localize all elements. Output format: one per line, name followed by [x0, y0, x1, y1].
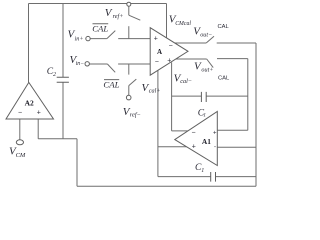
- capacitor C1 bottom plates: [211, 172, 216, 182]
- wire V_ref+ stub: [128, 6, 130, 15]
- terminal V_in+: [86, 36, 90, 40]
- switch blade CAL row2: [107, 64, 115, 72]
- wire row1 to A + input: [118, 38, 150, 40]
- terminal V_in-: [85, 62, 89, 66]
- wire right inner vertical: [247, 59, 249, 131]
- svg-text:−: −: [155, 59, 159, 66]
- op-amp A2: [6, 82, 54, 119]
- svg-text:CAL: CAL: [92, 23, 108, 33]
- label CAL-bar row1: [92, 23, 108, 33]
- svg-text:2: 2: [53, 72, 56, 78]
- terminal V_CM: [16, 140, 23, 145]
- wire A2 inverting input stub: [19, 119, 21, 140]
- switch blade CAL V_out-: [206, 36, 214, 43]
- svg-text:ref−: ref−: [130, 112, 141, 119]
- svg-text:+: +: [154, 36, 158, 43]
- svg-text:in+: in+: [75, 35, 84, 42]
- capacitor C2 plates: [57, 77, 69, 82]
- wire row2 Vin- to switch: [90, 63, 108, 65]
- svg-text:CM: CM: [16, 152, 26, 159]
- wire C1 bottom right lead: [216, 176, 257, 178]
- wire V_ref- lower stub: [128, 86, 130, 96]
- svg-text:-: -: [214, 144, 216, 150]
- wire A2 noninverting input stub: [37, 119, 39, 139]
- wire C1 top right lead: [206, 95, 248, 97]
- wire top rail: [29, 3, 167, 5]
- svg-text:1: 1: [203, 112, 206, 118]
- wire bottom rail: [77, 185, 256, 187]
- switch blade CAL row1: [107, 31, 115, 39]
- switch blade CAL V_out+: [207, 59, 214, 68]
- terminal V_ref-: [126, 95, 131, 100]
- svg-text:ref+: ref+: [113, 13, 124, 20]
- wire V_cal+ drop: [157, 70, 159, 176]
- label V_out-: [193, 25, 212, 38]
- svg-text:A: A: [157, 48, 162, 56]
- svg-text:1: 1: [201, 168, 204, 174]
- wire C2 bottom lead: [62, 82, 64, 139]
- label V_in+: [68, 29, 84, 43]
- svg-text:cal+: cal+: [149, 88, 161, 95]
- wire A1 noninverting input: [158, 146, 187, 148]
- svg-text:CAL: CAL: [103, 80, 119, 90]
- label V_CMcal: [169, 13, 192, 27]
- wire V_CMcal drop: [166, 4, 168, 38]
- wire A2 output up: [28, 4, 30, 83]
- wire row1 Vin+ to switch: [90, 38, 107, 40]
- terminal V_ref+: [127, 2, 131, 6]
- label V_cal+: [142, 82, 161, 95]
- label V_cal-: [174, 72, 192, 85]
- wire A1 inverting input: [172, 130, 188, 132]
- svg-text:cal−: cal−: [180, 78, 192, 85]
- wire row2 to A - input: [118, 63, 150, 65]
- wire A2 + to corner: [38, 138, 77, 140]
- wire C2 top lead: [62, 4, 64, 78]
- wire V_ref- upper stub: [128, 64, 130, 75]
- wire A1 output top: [217, 129, 248, 131]
- switch blade V_ref+: [129, 15, 141, 20]
- wire V_out+ to right: [217, 58, 248, 60]
- svg-text:in−: in−: [76, 61, 85, 67]
- label V_ref-: [123, 106, 141, 119]
- svg-text:+: +: [37, 109, 41, 116]
- label V_in-: [70, 54, 85, 67]
- svg-text:+: +: [167, 58, 171, 65]
- svg-text:CAL: CAL: [218, 24, 230, 30]
- svg-text:−: −: [169, 43, 173, 50]
- wire C1 top left lead: [172, 95, 202, 97]
- label C2: [47, 67, 56, 78]
- label C1 bottom: [195, 163, 204, 174]
- wire V_out- from A: [175, 42, 207, 44]
- label V_out+: [194, 61, 213, 74]
- op-amp A: [150, 28, 188, 75]
- svg-text:CAL: CAL: [218, 76, 230, 82]
- svg-text:A1: A1: [202, 137, 211, 146]
- svg-text:−: −: [192, 129, 196, 136]
- label V_CM: [9, 145, 26, 159]
- switch blade V_ref-: [129, 79, 137, 86]
- wire C1 bottom left lead: [158, 176, 211, 178]
- wire V_cal- drop: [171, 62, 173, 130]
- wire right outer vertical: [255, 43, 257, 186]
- capacitor C1 top plates: [201, 92, 206, 102]
- svg-text:V: V: [105, 7, 113, 19]
- wire V_out- to right: [217, 42, 256, 44]
- svg-text:A2: A2: [25, 98, 34, 107]
- svg-text:CMcal: CMcal: [175, 21, 191, 27]
- svg-text:out+: out+: [201, 67, 213, 74]
- label CAL-bar row2: [103, 80, 119, 90]
- wire V_ref+ lower stub: [128, 26, 130, 38]
- svg-text:out−: out−: [200, 31, 212, 38]
- wire V_out+ from A: [176, 58, 207, 60]
- wire corner drop left: [76, 139, 78, 187]
- wire A1 output bottom: [217, 146, 256, 148]
- label C1 top: [198, 108, 207, 118]
- svg-text:+: +: [192, 144, 196, 151]
- op-amp A1: [175, 111, 218, 165]
- label V_ref+: [105, 7, 124, 20]
- svg-text:−: −: [18, 109, 22, 116]
- svg-text:+: +: [213, 130, 217, 136]
